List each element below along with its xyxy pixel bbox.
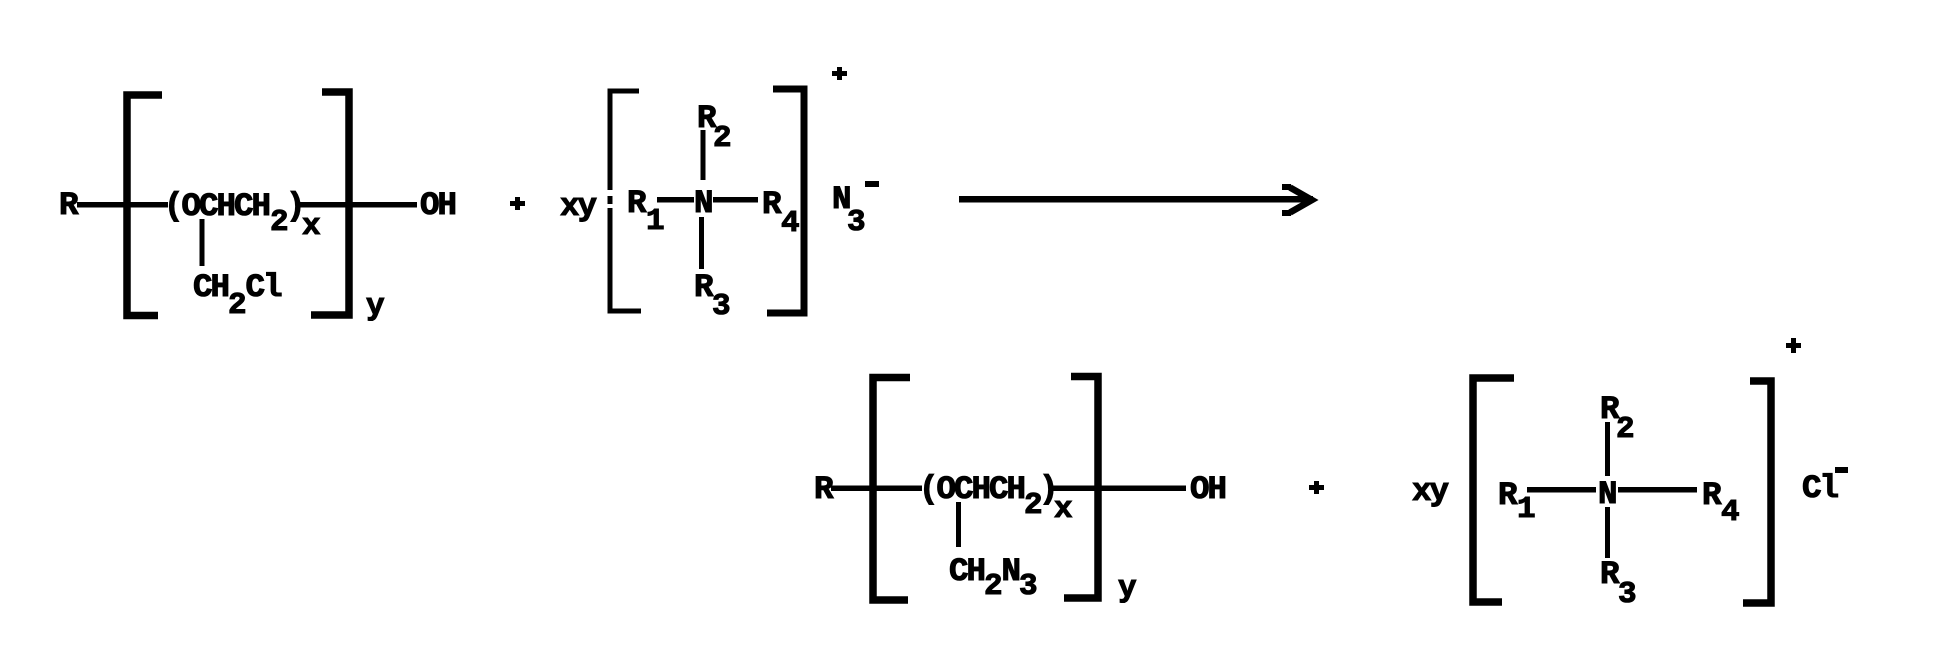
left bracket (product C) — [873, 378, 910, 601]
svg-text:1: 1 — [646, 204, 665, 239]
svg-text:R: R — [1702, 477, 1722, 514]
arrow head lower hook — [1282, 210, 1291, 216]
svg-text:4: 4 — [781, 206, 800, 241]
right bracket (product D) — [1743, 381, 1771, 603]
arrow head upper hook — [1282, 184, 1291, 190]
bond R1 to N — [657, 197, 694, 203]
svg-text:OH: OH — [1190, 471, 1227, 508]
left bracket (product D) — [1473, 378, 1514, 602]
bond CH to CH2Cl — [200, 219, 205, 266]
bond CH to CH2N3 (product C) — [956, 502, 961, 547]
superscript plus (product D cation) — [1786, 343, 1801, 348]
superscript minus of N3 — [865, 181, 879, 187]
svg-text:2: 2 — [713, 121, 732, 156]
right bracket (reactant A) — [311, 92, 349, 315]
arrow head — [1290, 188, 1312, 213]
svg-text:3: 3 — [847, 205, 866, 240]
svg-text:y: y — [366, 289, 385, 324]
plus sign between products — [1309, 485, 1324, 490]
right bracket (reactant B) — [767, 89, 804, 313]
bond R2 to N (product D) — [1605, 422, 1610, 476]
svg-text:xy: xy — [560, 188, 597, 225]
svg-text:R: R — [1600, 556, 1620, 593]
bond N to R4 (product D) — [1618, 487, 1697, 493]
svg-text:2: 2 — [984, 569, 1003, 604]
svg-text:(OCHCH: (OCHCH — [164, 188, 271, 225]
bond ) to OH (product C) — [1052, 486, 1186, 492]
bond R1 to N (product D) — [1527, 487, 1596, 493]
left bracket lower part (reactant B) — [610, 208, 641, 311]
svg-text:3: 3 — [1618, 577, 1637, 612]
bond N to R3 (product D) — [1605, 507, 1610, 558]
bond R to (OCHCH2) — [77, 202, 168, 208]
left bracket (reactant A) — [127, 95, 162, 316]
left bracket dot (scan break) — [608, 196, 613, 204]
svg-text:xy: xy — [1412, 473, 1449, 510]
svg-text:3: 3 — [712, 289, 731, 324]
bond R to (OCHCH2) (product C) — [831, 486, 922, 492]
left bracket (reactant B) — [610, 91, 639, 190]
svg-text:(OCHCH: (OCHCH — [919, 471, 1026, 508]
plus sign between reactants — [510, 201, 525, 206]
svg-text:R: R — [1498, 477, 1518, 514]
svg-text:N: N — [694, 185, 714, 222]
svg-text:y: y — [1118, 571, 1137, 606]
bond R2 to N — [701, 130, 706, 180]
svg-text:R: R — [59, 187, 79, 224]
svg-text:R: R — [762, 186, 782, 223]
svg-text:3: 3 — [1019, 569, 1038, 604]
svg-text:2: 2 — [228, 288, 247, 323]
superscript minus of Cl — [1835, 467, 1848, 473]
svg-text:1: 1 — [1517, 492, 1536, 527]
svg-text:R: R — [694, 269, 714, 306]
right bracket (product C) — [1064, 377, 1098, 599]
superscript plus (reactant B cation) — [832, 71, 847, 76]
svg-text:4: 4 — [1721, 495, 1740, 530]
bond N to R4 — [713, 197, 758, 203]
svg-text:R: R — [627, 185, 647, 222]
bond N to R3 — [699, 217, 704, 269]
svg-text:CH: CH — [949, 553, 986, 590]
svg-text:OH: OH — [420, 187, 457, 224]
svg-text:Cl: Cl — [1802, 470, 1839, 507]
svg-text:Cl: Cl — [246, 269, 283, 306]
svg-text:CH: CH — [193, 269, 230, 306]
svg-text:2: 2 — [1616, 412, 1635, 447]
bond ) to OH — [299, 202, 417, 208]
arrow shaft — [959, 196, 1313, 203]
svg-text:x: x — [1054, 492, 1073, 527]
svg-text:x: x — [302, 209, 321, 244]
